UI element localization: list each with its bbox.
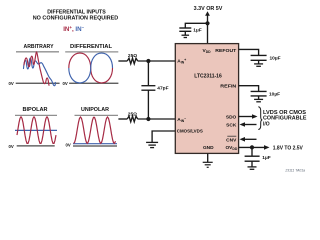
supply arrow up: [205, 11, 210, 16]
svg-text:23111 TA01a: 23111 TA01a: [284, 169, 305, 173]
svg-text:I/O: I/O: [263, 122, 270, 128]
svg-text:CNV: CNV: [226, 137, 237, 143]
svg-text:0V: 0V: [66, 143, 71, 148]
common-mode mid line: [15, 129, 57, 131]
svg-text:NO CONFIGURATION REQUIRED: NO CONFIGURATION REQUIRED: [33, 16, 119, 22]
svg-text:REFIN: REFIN: [220, 84, 237, 90]
waveform panel: ARBITRARY: [9, 44, 60, 86]
svg-text:47pF: 47pF: [157, 86, 168, 92]
0V blue zero line: [73, 143, 117, 145]
wire junction to C1 top: [147, 61, 149, 86]
unipolar sine waveform: [74, 117, 116, 143]
arbitrary waveform red: [24, 52, 49, 85]
capacitor C3 10uF: [251, 55, 267, 60]
bipolar sine waveform: [17, 117, 56, 144]
label LVDS OR CMOS CONFIGURABLE I/O: [263, 110, 307, 128]
node VDD junction: [205, 21, 209, 25]
0V rail line: [69, 82, 118, 84]
svg-text:0V: 0V: [9, 81, 14, 86]
waveform panel: BIPOLAR: [9, 107, 58, 149]
wire AIN+ input stub: [118, 60, 127, 62]
ground symbol (C2): [182, 35, 190, 37]
ground symbol (C3): [254, 64, 263, 66]
top rail line: [16, 51, 59, 53]
capacitor C2 1uF: [179, 28, 191, 31]
svg-text:UNIPOLAR: UNIPOLAR: [81, 107, 109, 113]
svg-text:DIFFERENTIAL INPUTS: DIFFERENTIAL INPUTS: [47, 9, 106, 15]
differential waveform red (top of left eye, bottom of right eye): [69, 53, 113, 83]
capacitor C4 10uF: [251, 91, 267, 96]
svg-text:1µF: 1µF: [193, 28, 201, 34]
wire GND pin to ground: [207, 153, 209, 162]
svg-text:SCK: SCK: [226, 122, 237, 128]
ground symbol (C4): [254, 99, 263, 101]
svg-text:DIFFERENTIAL: DIFFERENTIAL: [70, 44, 112, 50]
0V rail line: [16, 82, 60, 84]
wire REFOUT to C3: [239, 49, 259, 55]
title note text: [33, 9, 119, 21]
svg-text:10µF: 10µF: [269, 91, 280, 97]
svg-text:ARBITRARY: ARBITRARY: [24, 44, 55, 50]
svg-text:REFOUT: REFOUT: [215, 48, 236, 54]
capacitor C1 47pF: [141, 86, 155, 91]
differential waveform blue (bottom of left eye, top of right eye): [69, 53, 113, 83]
wire junction to C5: [251, 147, 253, 156]
svg-text:BIPOLAR: BIPOLAR: [23, 107, 48, 113]
wire SDO output arrow: [239, 116, 254, 118]
svg-text:LTC2311-16: LTC2311-16: [194, 73, 222, 79]
svg-text:25Ω: 25Ω: [128, 111, 137, 117]
wire C4 to ground: [258, 96, 260, 100]
wire AIN- input stub: [118, 118, 127, 120]
top rail line: [75, 114, 119, 116]
node junction top input: [146, 59, 150, 63]
top rail line: [15, 114, 57, 116]
wire junction to C2: [185, 23, 207, 28]
waveform panel: DIFFERENTIAL: [63, 44, 119, 86]
wire C5 to ground: [251, 161, 253, 167]
op-amp / ADC U1 LTC2311-16 body: [175, 44, 238, 154]
svg-text:1µF: 1µF: [262, 155, 270, 161]
svg-text:CMOS/LVDS: CMOS/LVDS: [177, 129, 204, 135]
ground symbol (GND pin): [203, 162, 213, 167]
wire SCK input arrow: [243, 124, 257, 126]
wire OVDD to supply arrow: [239, 146, 266, 148]
ground symbol (CMOS/LVDS): [146, 142, 158, 147]
0V dark rail line: [73, 145, 117, 147]
wire R2 to AIN- pin: [138, 118, 176, 120]
ground symbol (C5): [248, 167, 257, 169]
node OVDD junction: [250, 145, 254, 149]
brace for I/O group: [258, 107, 262, 130]
waveform panel: UNIPOLAR: [66, 107, 119, 148]
svg-text:IN+, IN–: IN+, IN–: [63, 25, 84, 33]
svg-text:10µF: 10µF: [270, 56, 281, 62]
wire VDD supply: [207, 14, 209, 43]
node IN+, IN- legend: [63, 25, 84, 33]
wire REFIN to C4: [239, 86, 259, 92]
top rail line: [65, 51, 118, 53]
wire C2 to ground: [184, 31, 186, 35]
capacitor C5 1uF: [245, 156, 260, 161]
wire CMOS/LVDS to ground: [152, 131, 175, 142]
node junction bottom input: [146, 117, 150, 121]
svg-text:SDO: SDO: [226, 114, 237, 120]
wire R1 to AIN+ pin: [138, 60, 176, 62]
svg-text:1.8V TO 2.5V: 1.8V TO 2.5V: [273, 146, 304, 152]
resistor R2 25R (bottom): [127, 116, 138, 122]
svg-text:3.3V OR 5V: 3.3V OR 5V: [194, 6, 223, 12]
wire C3 to ground: [258, 60, 260, 64]
arbitrary waveform blue: [24, 58, 56, 86]
svg-text:0V: 0V: [63, 81, 68, 86]
svg-text:25Ω: 25Ω: [128, 53, 137, 59]
resistor R1 25R (top): [127, 58, 138, 64]
svg-text:GND: GND: [203, 145, 214, 151]
wire C1 bottom to lower junction: [147, 90, 149, 119]
wire CNV input arrow: [243, 138, 257, 140]
0V rail line: [17, 145, 55, 147]
svg-text:0V: 0V: [9, 144, 14, 149]
